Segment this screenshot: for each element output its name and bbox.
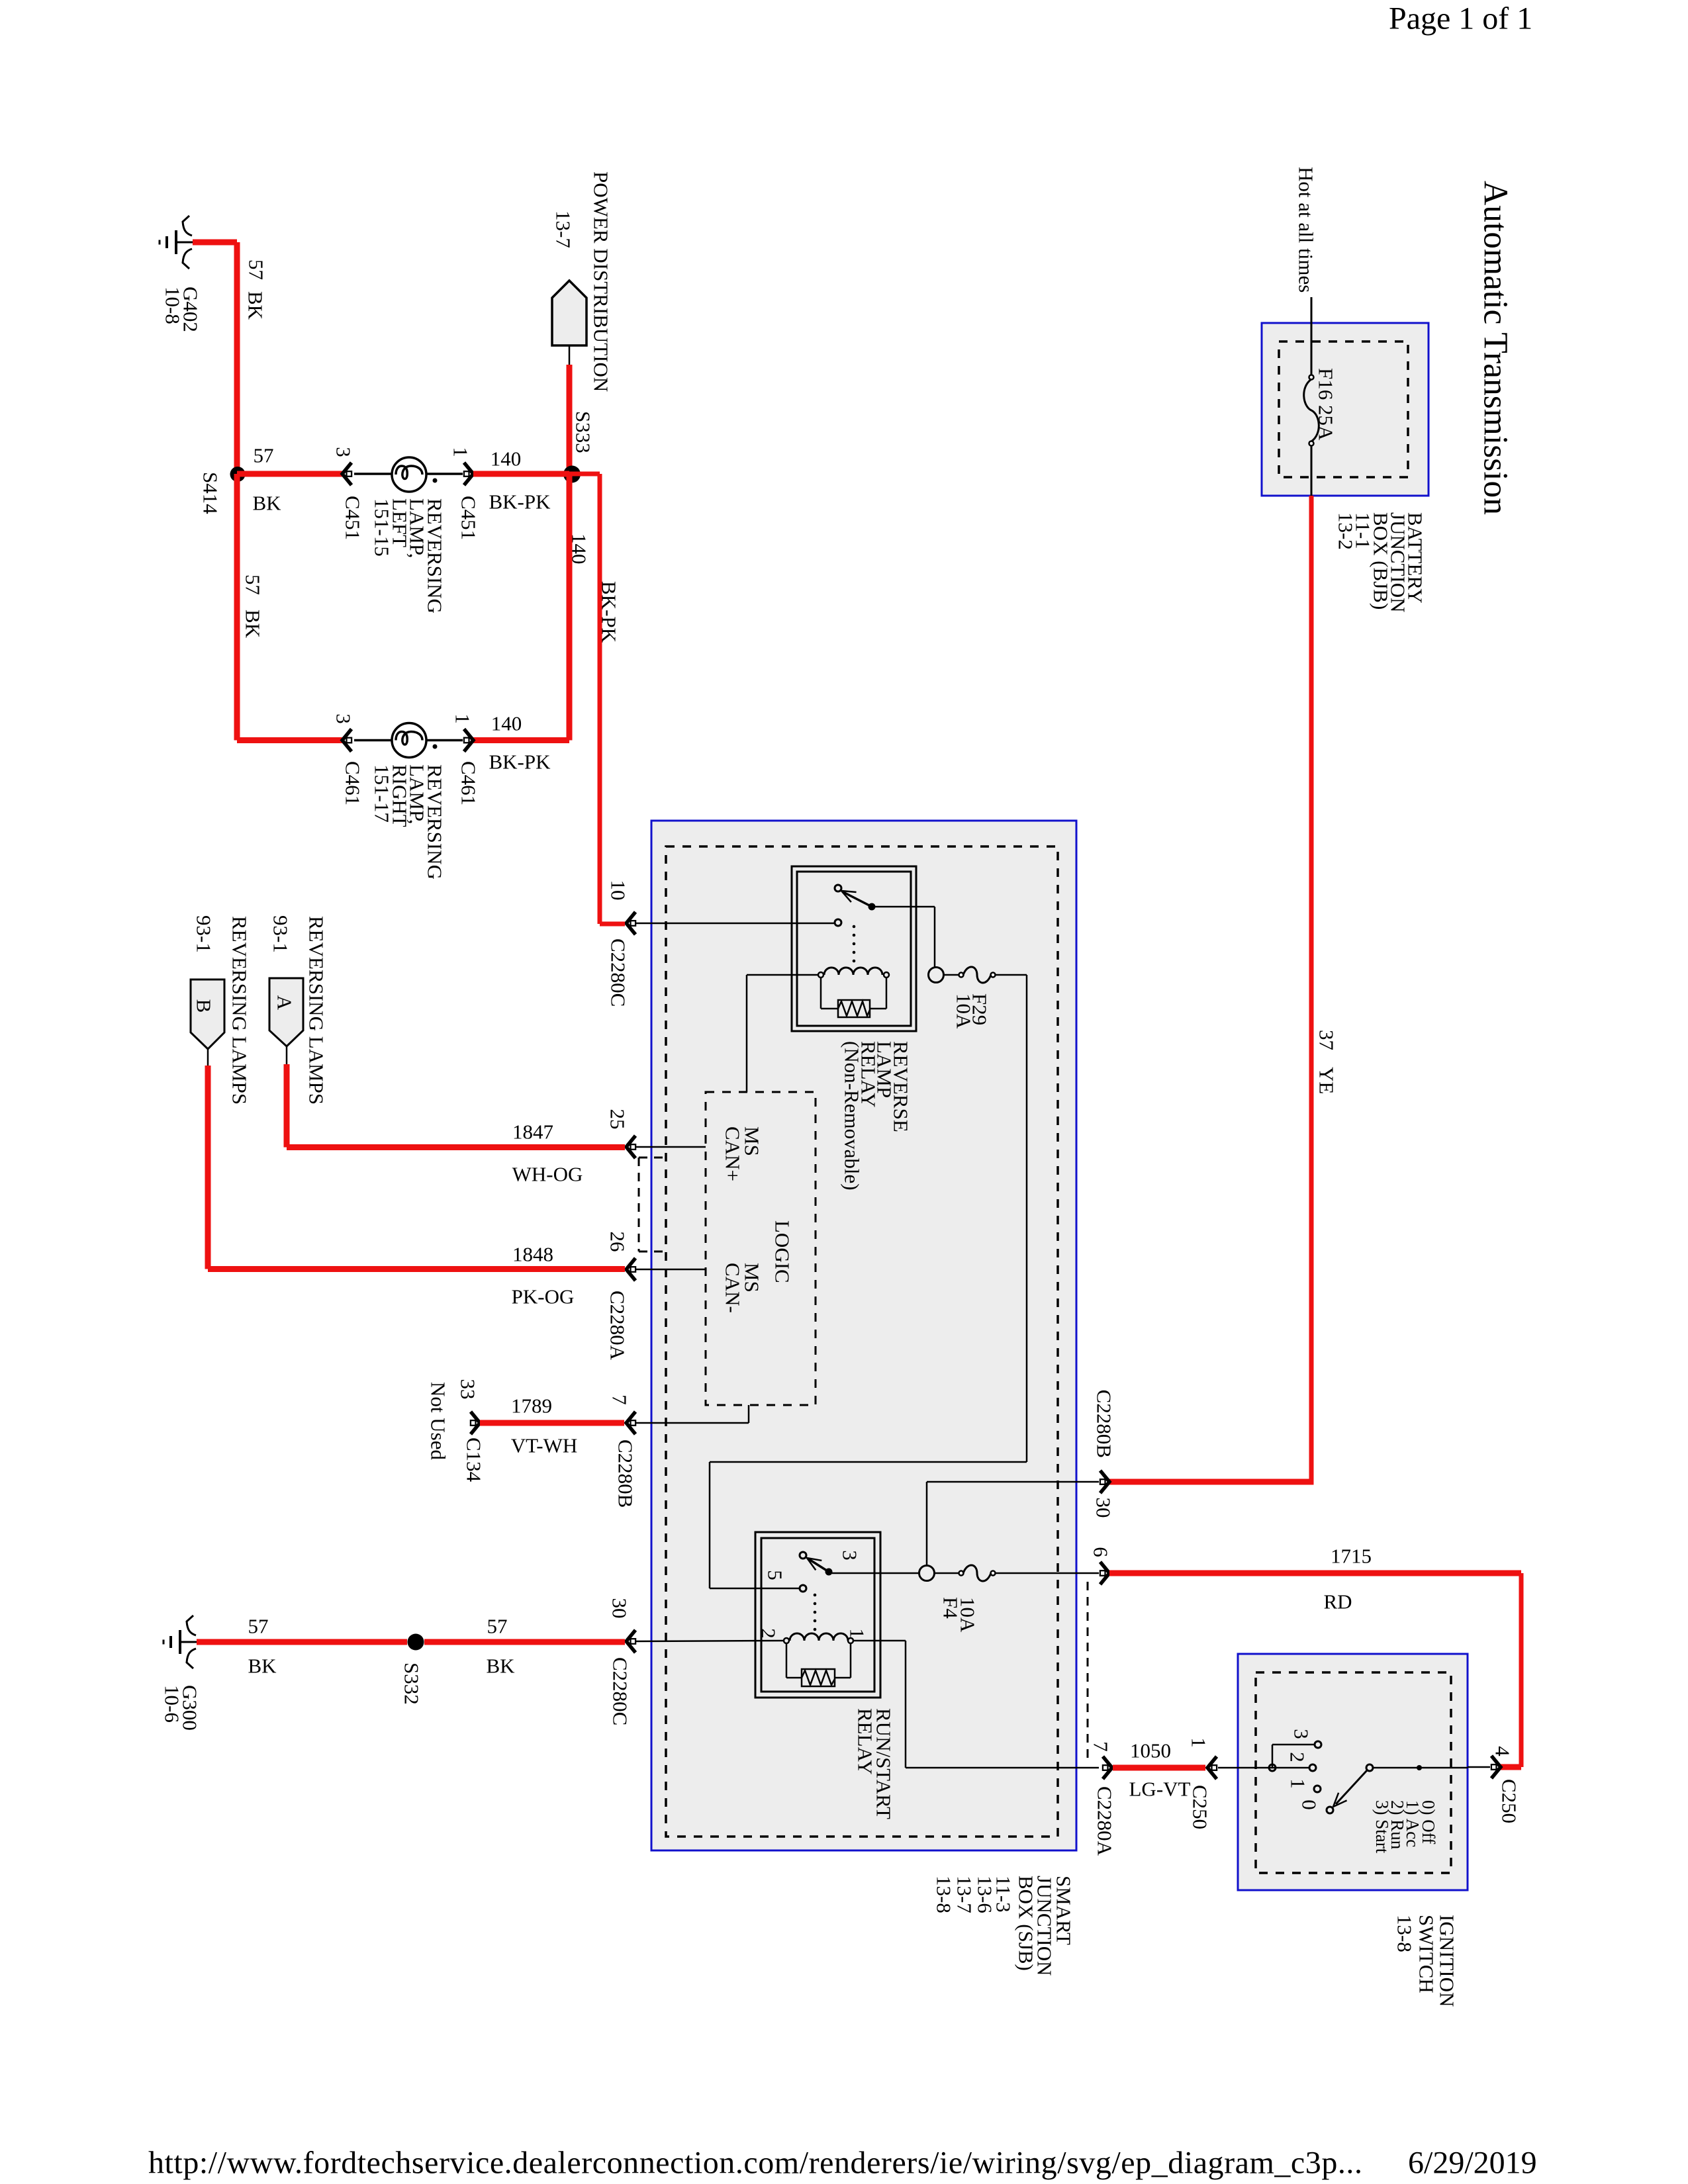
wire 1050 LG-VT [1113, 1765, 1205, 1771]
relay armature arrowhead [839, 886, 856, 902]
runstart armature arrowhead [804, 1553, 821, 1570]
svg-text:BK: BK [486, 1655, 515, 1678]
svg-text:33: 33 [457, 1379, 480, 1400]
relay coil [824, 968, 882, 975]
svg-text:6/29/2019: 6/29/2019 [1408, 2146, 1537, 2181]
svg-text:RD: RD [1323, 1590, 1352, 1614]
svg-text:7: 7 [608, 1394, 632, 1405]
wire 57 BK vertical [234, 242, 240, 474]
svg-text:1: 1 [451, 713, 475, 724]
svg-text:25: 25 [606, 1109, 630, 1130]
smart junction box SJB [651, 821, 1076, 1850]
pentagon stem [569, 345, 571, 366]
lead to lamp right [354, 739, 392, 742]
svg-text:REVERSING LAMPS: REVERSING LAMPS [228, 916, 252, 1105]
svg-text:140: 140 [491, 712, 522, 735]
wire 37 YE to pin30 [1109, 1479, 1314, 1485]
ignition contact 0 [1327, 1807, 1333, 1813]
svg-text:C461: C461 [457, 761, 481, 805]
svg-text:93-1: 93-1 [193, 915, 216, 953]
svg-text:C250: C250 [1189, 1785, 1212, 1829]
wire S333 down to C461 [567, 474, 573, 741]
svg-text:Hot at all times: Hot at all times [1295, 167, 1318, 293]
svg-text:1789: 1789 [511, 1394, 552, 1418]
ignition inner dashed [1256, 1672, 1451, 1873]
relay contact A [835, 885, 841, 891]
svg-text:151-15: 151-15 [371, 498, 394, 557]
svg-text:POWER DISTRIBUTION: POWER DISTRIBUTION [590, 171, 613, 392]
lamp reversing lamp left [392, 457, 426, 492]
wire BJB fuse bottom [1311, 445, 1313, 496]
wire S333 to pin10 [569, 472, 600, 477]
ignition junction contact [1269, 1764, 1276, 1771]
svg-text:PK-OG: PK-OG [512, 1285, 575, 1308]
runstart resistor [802, 1669, 835, 1686]
arrow 33 C134 [471, 1412, 480, 1434]
lamp dot left [433, 478, 438, 483]
wire coil to resistor 2 [786, 1643, 788, 1678]
svg-text:30: 30 [608, 1598, 632, 1619]
svg-text:IGNITION: IGNITION [1436, 1915, 1459, 2007]
ignition rotor arrowhead [1329, 1793, 1347, 1811]
wire to C461 pin3 [237, 737, 344, 743]
svg-text:10A: 10A [953, 993, 976, 1029]
svg-text:C250: C250 [1498, 1779, 1521, 1823]
battery junction box BJB [1262, 323, 1429, 496]
svg-text:140: 140 [491, 447, 522, 471]
svg-text:C451: C451 [457, 496, 481, 540]
svg-text:3) Start: 3) Start [1372, 1800, 1392, 1854]
svg-text:10A: 10A [957, 1597, 980, 1633]
fuse F4 10A [959, 1565, 996, 1581]
wire pentagon to S333 [567, 365, 573, 474]
terminal circle F4 [919, 1566, 935, 1581]
BJB inner dashed [1279, 341, 1408, 477]
svg-text:C2280C: C2280C [609, 1657, 632, 1725]
contact 3 circle [800, 1552, 806, 1559]
svg-text:1848: 1848 [512, 1243, 553, 1266]
svg-text:3: 3 [1290, 1729, 1313, 1739]
pentagon B stem [207, 1049, 209, 1067]
relay coil terminal left [818, 972, 823, 978]
wire 37 YE vertical [1309, 496, 1314, 1482]
arrow pin1 C250 [1207, 1756, 1217, 1779]
svg-text:57: 57 [242, 574, 265, 595]
svg-text:13-8: 13-8 [933, 1876, 956, 1913]
wire 57 BK left [197, 1639, 407, 1645]
svg-text:10: 10 [607, 880, 630, 901]
runstart coil terminal 2 [784, 1638, 789, 1643]
ignition jumper [1272, 1745, 1274, 1768]
connector C461 pin 3 [342, 729, 352, 752]
off-page connector reversing lamps A [269, 978, 303, 1046]
wire pivot to F4 [829, 1572, 919, 1574]
relay coil terminal right [884, 972, 889, 978]
relay run/start relay [755, 1532, 880, 1698]
svg-text:REVERSING LAMPS: REVERSING LAMPS [305, 916, 328, 1105]
arrow pin26 [626, 1258, 635, 1281]
wire pin25 to logic [636, 1146, 706, 1148]
svg-text:0: 0 [1298, 1799, 1321, 1810]
relay resistor [838, 1000, 870, 1017]
svg-text:10-8: 10-8 [162, 287, 185, 324]
relay mech link dots [853, 925, 856, 929]
svg-text:BOX (SJB): BOX (SJB) [1015, 1876, 1038, 1971]
wire 1847 WH-OG [287, 1144, 625, 1150]
svg-text:2: 2 [757, 1628, 780, 1639]
contact 5 circle [800, 1585, 806, 1592]
connector C461 pin 1 [464, 729, 473, 752]
lamp dot right [433, 745, 438, 749]
junction S414 [230, 467, 246, 482]
svg-text:57: 57 [248, 1615, 269, 1638]
svg-text:1715: 1715 [1331, 1545, 1372, 1568]
svg-text:10-6: 10-6 [161, 1685, 184, 1723]
wire coil to logic [747, 974, 818, 976]
svg-text:BK: BK [242, 610, 265, 639]
relay contact B [835, 919, 841, 926]
svg-text:C134: C134 [463, 1437, 486, 1482]
svg-text:1847: 1847 [512, 1120, 553, 1144]
svg-text:C2280C: C2280C [607, 938, 630, 1007]
wire F4 to pin6 [995, 1572, 1099, 1574]
wire 1848 vertical [205, 1066, 211, 1269]
lamp reversing lamp right [392, 723, 426, 758]
svg-text:BK: BK [244, 291, 267, 320]
arrow pin30 C2280C [626, 1630, 635, 1653]
dashed connector right [1087, 1582, 1089, 1764]
svg-text:BK-PK: BK-PK [598, 581, 621, 643]
runstart armature arm [809, 1559, 829, 1572]
wire rotor to pin4 [1373, 1767, 1468, 1769]
svg-text:BK-PK: BK-PK [489, 490, 551, 514]
svg-text:S333: S333 [572, 411, 595, 453]
runstart mech link dots [814, 1594, 817, 1597]
ignition contact 2 [1309, 1764, 1316, 1771]
wire pin1 out [853, 1640, 906, 1642]
svg-text:37: 37 [1315, 1030, 1338, 1050]
svg-text:1: 1 [1287, 1778, 1310, 1789]
relay reverse lamp relay [792, 866, 916, 1031]
pentagon A stem [286, 1046, 288, 1066]
svg-text:57: 57 [487, 1615, 508, 1638]
svg-text:Not Used: Not Used [427, 1382, 450, 1460]
wire 1847 vertical [284, 1064, 290, 1148]
wire pin26 to logic [636, 1269, 706, 1271]
fuse F16 25A [1304, 375, 1319, 446]
svg-text:6: 6 [1090, 1547, 1113, 1557]
wire pin30 to F4 [927, 1481, 1099, 1483]
ignition switch [1238, 1654, 1468, 1890]
runstart coil terminal 1 [848, 1638, 853, 1643]
svg-text:S414: S414 [199, 472, 222, 514]
svg-text:151-17: 151-17 [371, 764, 394, 823]
wire into ignition [1218, 1767, 1309, 1769]
wire pin2 to pin30C [636, 1641, 784, 1641]
junction S332 [408, 1634, 424, 1651]
svg-text:C2280A: C2280A [1094, 1786, 1117, 1856]
svg-text:C461: C461 [342, 761, 365, 805]
ground G300 [164, 1615, 197, 1668]
svg-text:13-7: 13-7 [953, 1876, 976, 1913]
svg-text:30: 30 [1092, 1498, 1115, 1518]
svg-text:13-6: 13-6 [974, 1876, 997, 1913]
runstart coil [790, 1633, 848, 1641]
junction S333 [563, 466, 581, 483]
svg-text:1: 1 [846, 1628, 869, 1639]
svg-text:Page 1 of 1: Page 1 of 1 [1389, 1, 1532, 36]
svg-text:LOGIC: LOGIC [771, 1220, 794, 1283]
svg-text:Automatic Transmission: Automatic Transmission [1477, 181, 1515, 515]
svg-text:CAN+: CAN+ [722, 1126, 745, 1181]
svg-text:5: 5 [764, 1570, 787, 1580]
ignition contact 3 [1315, 1741, 1321, 1748]
arrow pin7 [626, 1412, 635, 1434]
ground G402 [160, 216, 193, 269]
svg-text:C2280B: C2280B [1093, 1390, 1116, 1458]
off-page connector reversing lamps B [191, 979, 224, 1049]
svg-text:S332: S332 [400, 1662, 424, 1705]
svg-text:BK-PK: BK-PK [489, 751, 551, 774]
SJB inner dashed [666, 846, 1058, 1837]
svg-text:http://www.fordtechservice.dea: http://www.fordtechservice.dealerconnect… [148, 2146, 1363, 2181]
svg-text:57: 57 [245, 259, 268, 280]
svg-text:C451: C451 [342, 496, 365, 540]
lead from lamp left [426, 473, 463, 475]
svg-text:(Non-Removable): (Non-Removable) [841, 1041, 864, 1191]
svg-text:13-2: 13-2 [1335, 512, 1358, 550]
junction dot ignition [1417, 1765, 1422, 1770]
relay armature arm [843, 892, 872, 907]
svg-text:WH-OG: WH-OG [512, 1163, 583, 1186]
connector C451 pin 1 [464, 463, 473, 485]
svg-text:A: A [273, 995, 297, 1011]
wire pin4 into ignition [1468, 1766, 1490, 1768]
wire contact5 feed [710, 1588, 800, 1590]
wire BJB fuse top [1311, 297, 1313, 375]
svg-text:BK: BK [248, 1655, 277, 1678]
wire pin7 to logic [636, 1422, 749, 1424]
arrow pin30 right [1100, 1471, 1109, 1493]
wire 1715 RD [1109, 1570, 1521, 1576]
svg-text:93-1: 93-1 [269, 915, 293, 953]
wire pin10 to relay contact [636, 923, 835, 925]
svg-text:YE: YE [1315, 1067, 1338, 1094]
wire 57 BK S414 down [234, 474, 240, 741]
relay armature pivot [868, 903, 876, 911]
off-page connector power distribution [552, 281, 586, 345]
arrow pin6 [1100, 1562, 1109, 1584]
svg-text:1050: 1050 [1130, 1739, 1171, 1762]
svg-text:VT-WH: VT-WH [511, 1434, 577, 1457]
connector C451 pin 3 [342, 463, 352, 485]
wire to pin7 C2280A [906, 1767, 1099, 1769]
arrow pin10 [626, 912, 635, 934]
arrow pin4 C250 [1491, 1756, 1501, 1778]
svg-text:C2280A: C2280A [606, 1291, 630, 1361]
svg-text:26: 26 [606, 1232, 630, 1252]
svg-text:3: 3 [839, 1550, 862, 1561]
ignition rotor arm [1336, 1770, 1367, 1804]
svg-text:F16 25A: F16 25A [1315, 368, 1338, 441]
svg-text:RELAY: RELAY [854, 1708, 877, 1774]
svg-text:3: 3 [332, 447, 355, 457]
svg-text:57: 57 [254, 444, 274, 467]
ignition rotor [1366, 1764, 1373, 1771]
wire coil to resistor [820, 978, 822, 1009]
svg-text:1: 1 [1188, 1737, 1211, 1748]
svg-text:1: 1 [449, 447, 473, 457]
svg-text:B: B [193, 999, 216, 1013]
lead from lamp right [426, 739, 463, 742]
wire 57 BK right [424, 1639, 625, 1645]
svg-text:13-8: 13-8 [1393, 1915, 1417, 1952]
svg-text:2: 2 [1286, 1752, 1309, 1762]
logic box dashed [706, 1092, 816, 1405]
svg-text:3: 3 [332, 713, 355, 724]
wire g402 stub [193, 240, 237, 246]
lead to lamp left [354, 473, 392, 475]
runstart resistor zigzag [802, 1670, 835, 1685]
arrow pin25 [626, 1136, 635, 1158]
svg-text:BK: BK [252, 492, 281, 515]
wire F29 down [1026, 975, 1028, 1462]
resistor zigzag [838, 1001, 870, 1016]
svg-text:LG-VT: LG-VT [1129, 1778, 1191, 1801]
svg-text:CAN-: CAN- [722, 1263, 745, 1313]
wire pivot to F29 [872, 906, 935, 908]
wire 57 BK S414 to C451 [237, 471, 344, 477]
svg-text:SWITCH: SWITCH [1415, 1915, 1438, 1993]
arrow pin7 right [1103, 1756, 1112, 1779]
runstart armature pivot [825, 1569, 833, 1576]
svg-text:7: 7 [1090, 1741, 1113, 1752]
ignition contact 1 [1314, 1786, 1321, 1792]
svg-text:4: 4 [1491, 1746, 1515, 1756]
wire 140 BK-PK to S333 [473, 471, 569, 477]
svg-text:C2280B: C2280B [614, 1439, 637, 1508]
fuse F29 10A [959, 967, 996, 983]
terminal circle F29 [929, 968, 944, 983]
svg-text:13-7: 13-7 [552, 210, 575, 248]
wire 1848 PK-OG [208, 1266, 625, 1272]
